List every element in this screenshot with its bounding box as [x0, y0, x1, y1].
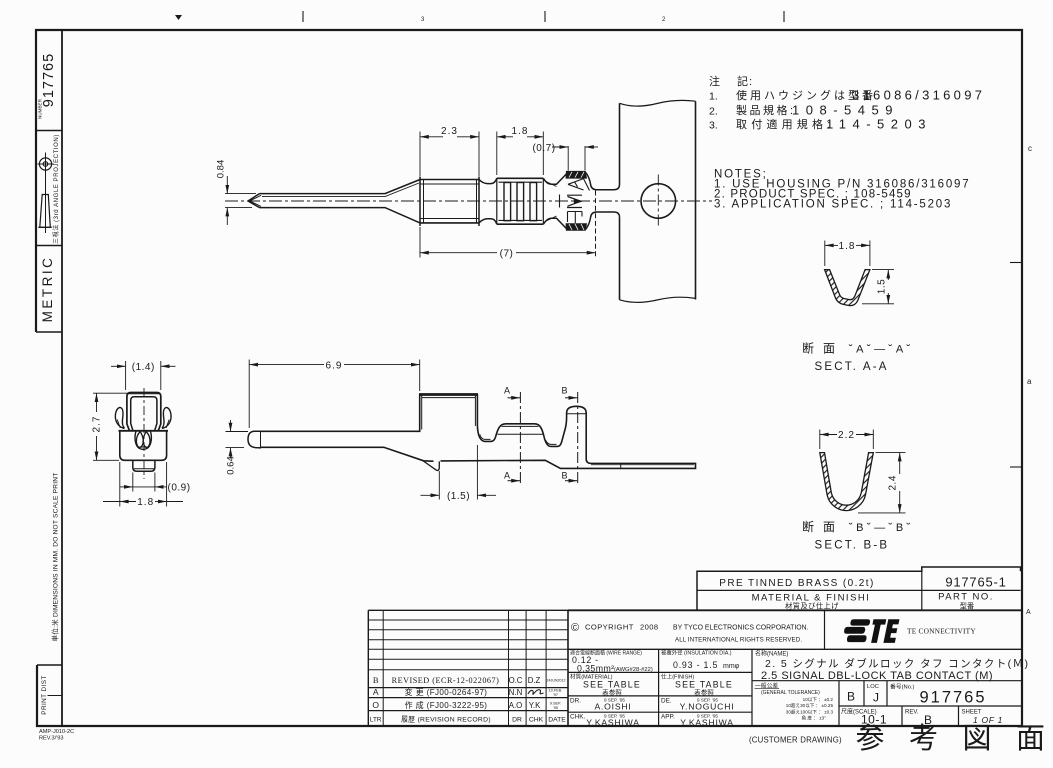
drafter cells	[570, 698, 734, 728]
svg-text:A: A	[1026, 609, 1031, 616]
svg-text:917765: 917765	[919, 689, 986, 707]
svg-text:REVISED (ECR-12-022067): REVISED (ECR-12-022067)	[392, 676, 500, 685]
front view centerline	[143, 388, 145, 479]
svg-text:Y.K: Y.K	[529, 701, 541, 710]
svg-text:作 成 (FJ00-3222-95): 作 成 (FJ00-3222-95)	[405, 700, 488, 710]
left strip: PRINT DIST box	[37, 665, 62, 726]
svg-text:0.93 - 1.5: 0.93 - 1.5	[673, 660, 718, 670]
svg-text:a: a	[1027, 377, 1032, 386]
svg-text:BY TYCO ELECTRONICS CORPORATIO: BY TYCO ELECTRONICS CORPORATION.	[673, 625, 809, 632]
svg-text:Y.KASHIWA: Y.KASHIWA	[586, 718, 640, 728]
svg-text:9.SEP.: 9.SEP.	[550, 702, 561, 706]
svg-text:取付適用規格:: 取付適用規格:	[736, 117, 834, 131]
svg-text:108-5459: 108-5459	[792, 103, 899, 118]
svg-text:COPYRIGHT: COPYRIGHT	[585, 623, 634, 632]
svg-text:Y.KASHIWA: Y.KASHIWA	[680, 718, 734, 728]
svg-text:三視法 (3rd ANGLE PROJECTION): 三視法 (3rd ANGLE PROJECTION)	[52, 134, 60, 244]
left strip: third angle projection symbol box	[36, 134, 62, 245]
svg-text:TE CONNECTIVITY: TE CONNECTIVITY	[907, 627, 976, 636]
svg-text:DE.: DE.	[661, 698, 672, 705]
svg-text:(GENERAL TOLERANCE): (GENERAL TOLERANCE)	[761, 690, 820, 696]
breakoff dashed line	[595, 191, 597, 258]
svg-text:材質及び仕上げ: 材質及び仕上げ	[785, 602, 839, 611]
A-A hatched V wall	[825, 270, 870, 306]
B-B dim 2.2	[820, 430, 874, 450]
English notes block	[714, 169, 970, 211]
revision header row	[370, 715, 566, 723]
Japanese notes block	[709, 74, 985, 132]
centerline	[225, 200, 712, 202]
svg-text:A.O: A.O	[509, 701, 522, 710]
svg-text:A.OISHI: A.OISHI	[594, 702, 631, 712]
svg-text:10超え30以下 ： ±0.25: 10超え30以下 ： ±0.25	[786, 702, 834, 709]
svg-text:0.84: 0.84	[216, 160, 227, 179]
svg-text:SECT. B-B: SECT. B-B	[815, 540, 890, 552]
slotted barrel section (1.8)	[497, 178, 544, 224]
svg-text:3. APPLICATION SPEC. ; 114-520: 3. APPLICATION SPEC. ; 114-5203	[714, 199, 952, 211]
svg-text:PRINT DIST: PRINT DIST	[41, 675, 48, 714]
svg-text:DR: DR	[512, 716, 522, 723]
svg-text:断面: 断面	[802, 341, 844, 356]
svg-text:番号(No.): 番号(No.)	[890, 684, 915, 691]
svg-text:NUMBER: NUMBER	[38, 98, 43, 119]
front view bottom tab	[133, 461, 155, 472]
svg-text:0.64: 0.64	[226, 456, 237, 475]
svg-text:(CUSTOMER DRAWING): (CUSTOMER DRAWING)	[749, 736, 842, 745]
svg-text:B: B	[561, 386, 567, 396]
revision row O	[372, 700, 561, 710]
neck 2	[543, 174, 567, 230]
svg-text:LTR: LTR	[370, 716, 382, 723]
svg-text:J: J	[873, 691, 879, 705]
svg-text:1.8: 1.8	[512, 126, 529, 137]
svg-text:被覆外径 (INSULATION DIA.): 被覆外径 (INSULATION DIA.)	[661, 649, 732, 657]
svg-text:c: c	[1028, 144, 1032, 153]
svg-text:LOC: LOC	[867, 684, 879, 690]
svg-text:Y.NOGUCHI: Y.NOGUCHI	[680, 702, 735, 712]
dim (1.5) barb	[421, 445, 497, 500]
svg-text:A: A	[373, 687, 379, 697]
svg-text:履歴 (REVISION RECORD): 履歴 (REVISION RECORD)	[401, 715, 491, 723]
svg-text:1.8: 1.8	[839, 241, 856, 252]
svg-text:(1.4): (1.4)	[132, 362, 155, 373]
svg-text:114-5203: 114-5203	[826, 117, 932, 132]
svg-text:DATE: DATE	[548, 716, 566, 723]
top margin ticks	[303, 11, 784, 22]
svg-text:2.3: 2.3	[441, 126, 458, 137]
svg-text:A: A	[504, 470, 510, 480]
transition box section (2.3)	[420, 177, 479, 227]
svg-text:角 度 ： ±3°: 角 度 ： ±3°	[801, 715, 826, 722]
svg-text:24JUN2012: 24JUN2012	[547, 679, 566, 683]
svg-text:B: B	[561, 470, 567, 480]
tall box top edge (thick)	[419, 395, 478, 430]
A-A dim 1.5	[862, 270, 894, 304]
neck 1	[479, 178, 497, 224]
svg-text:B: B	[373, 675, 379, 685]
svg-text:917765-1: 917765-1	[945, 575, 1006, 590]
svg-text:(0.7): (0.7)	[532, 143, 555, 154]
svg-text:O.C: O.C	[509, 676, 523, 685]
svg-text:1.8: 1.8	[137, 497, 154, 508]
svg-text:2. 5 シグナル ダブルロック タフ コンタクト(: 2. 5 シグナル ダブルロック タフ コンタクト(Ｍ)	[765, 657, 1029, 670]
svg-text:(AWG#28-#22): (AWG#28-#22)	[614, 667, 653, 673]
svg-text:CHK: CHK	[529, 716, 544, 723]
svg-text:ALL INTERNATIONAL RIGHTS RESER: ALL INTERNATIONAL RIGHTS RESERVED.	[675, 637, 802, 644]
dim 2.3	[420, 132, 479, 177]
svg-text:注: 注	[709, 74, 723, 88]
TITLE BLOCK grid lines	[568, 610, 1022, 726]
front view inner clip (wire grip)	[135, 431, 151, 449]
svg-text:˘B˘—˘B˘: ˘B˘—˘B˘	[848, 522, 914, 534]
dim 2.7	[93, 393, 127, 460]
front view top box (tab)	[127, 393, 161, 431]
top margin tick triangle	[175, 15, 182, 20]
svg-text:0.35mm²: 0.35mm²	[577, 663, 615, 673]
svg-text:2.7: 2.7	[92, 416, 103, 433]
left strip: NUMBER box	[36, 53, 62, 131]
front view left ear	[115, 407, 124, 428]
lance M-shape detail	[567, 195, 582, 207]
svg-text:2.2: 2.2	[838, 430, 855, 441]
svg-text:D.Z: D.Z	[528, 676, 541, 685]
dim 1.8 (front)	[103, 462, 183, 507]
REVISION TABLE grid	[368, 610, 568, 726]
svg-text:917765: 917765	[41, 53, 57, 107]
svg-text:REV.: REV.	[905, 710, 919, 716]
svg-text:断面: 断面	[802, 519, 844, 534]
svg-text:1.: 1.	[709, 91, 718, 103]
svg-text:1.5: 1.5	[876, 279, 887, 294]
svg-text:AMP-J010-2C: AMP-J010-2C	[39, 729, 74, 735]
svg-text:N.N: N.N	[509, 688, 522, 697]
retention barb	[423, 461, 440, 471]
revision row A	[373, 687, 562, 697]
lance lower box detail	[568, 212, 583, 224]
front view body	[119, 431, 169, 461]
svg-text:3.: 3.	[709, 120, 718, 132]
dim (7) overall	[420, 227, 596, 258]
svg-text:APP.: APP.	[661, 714, 675, 721]
B-B dim 2.4	[858, 453, 906, 513]
svg-text:'97: '97	[553, 693, 558, 697]
dim 0.84 (top view pin thickness)	[225, 176, 256, 225]
TE logo bars	[844, 619, 870, 642]
svg-text:(7): (7)	[500, 249, 514, 260]
dim (0.9)	[120, 473, 167, 492]
svg-text:SEE TABLE: SEE TABLE	[675, 680, 733, 690]
A-A dim 1.8	[825, 241, 870, 267]
carrier strip	[620, 100, 696, 302]
right margin ticks	[1010, 263, 1022, 468]
svg-text:記:: 記:	[737, 74, 753, 88]
svg-text:316086/316097: 316086/316097	[852, 88, 985, 103]
carrier pilot hole	[641, 175, 676, 228]
svg-text:mmφ: mmφ	[723, 663, 740, 670]
svg-text:6.9: 6.9	[326, 360, 343, 371]
lance right edge to tab	[585, 172, 619, 230]
profile inner detail lines	[480, 414, 694, 469]
svg-text:2.4: 2.4	[887, 475, 898, 490]
svg-text:PRE TINNED BRASS (0.2t): PRE TINNED BRASS (0.2t)	[719, 578, 874, 589]
svg-text:CHK.: CHK.	[570, 714, 585, 721]
svg-text:'95: '95	[553, 706, 558, 710]
part-number header box	[697, 567, 1021, 610]
svg-text:SEE TABLE: SEE TABLE	[583, 680, 641, 690]
svg-text:単位:米 DIMENSIONS IN MM. DO NOT: 単位:米 DIMENSIONS IN MM. DO NOT SCALE PRIN…	[51, 473, 60, 642]
dim 6.9	[249, 360, 420, 429]
three crimp slots	[504, 183, 537, 221]
svg-text:10.FEB.: 10.FEB.	[549, 689, 563, 693]
svg-text:REV.3/'93: REV.3/'93	[39, 736, 64, 742]
B-B hatched U wall	[820, 453, 874, 511]
svg-text:型番: 型番	[960, 602, 974, 611]
section cut line B-B	[561, 386, 577, 485]
svg-text:2008: 2008	[640, 623, 659, 632]
profile outline top	[260, 394, 696, 468]
svg-text:(0.9): (0.9)	[168, 483, 191, 494]
svg-text:2.5 SIGNAL DBL-LOCK TAB CONTAC: 2.5 SIGNAL DBL-LOCK TAB CONTACT (M)	[761, 670, 993, 682]
front view right ear	[162, 407, 171, 428]
svg-text:30超え100以下 ： ±0.3: 30超え100以下 ： ±0.3	[786, 708, 834, 715]
svg-text:参考図面: 参考図面	[856, 722, 1053, 755]
svg-text:表参照: 表参照	[602, 688, 622, 697]
svg-text:表参照: 表参照	[694, 688, 714, 697]
center tick mark on lance	[559, 195, 561, 208]
locking lance hatched band bottom	[566, 224, 587, 231]
pin tip chevron	[248, 194, 261, 208]
svg-text:METRIC: METRIC	[40, 256, 55, 323]
svg-text:(1.5): (1.5)	[447, 491, 470, 502]
svg-text:˘A˘—˘A˘: ˘A˘—˘A˘	[848, 344, 914, 356]
svg-text:変 更 (FJ00-0264-97): 変 更 (FJ00-0264-97)	[405, 687, 488, 697]
lance A-shape detail	[568, 179, 590, 191]
dim 1.8 (slots)	[497, 132, 544, 176]
svg-text:2.: 2.	[709, 106, 718, 118]
revision row B	[373, 675, 566, 685]
svg-text:A: A	[504, 386, 510, 396]
svg-text:©: ©	[571, 622, 579, 634]
svg-text:名称(NAME): 名称(NAME)	[755, 650, 788, 658]
dim (0.7) lance width	[552, 146, 598, 171]
TE logo letters	[871, 619, 899, 643]
dim 0.64 (middle view)	[226, 420, 249, 459]
pin shaft outline	[260, 180, 421, 223]
section cut line A-A	[504, 386, 520, 485]
locking lance hatched band top	[566, 171, 587, 178]
profile bottom edge	[261, 447, 434, 461]
svg-text:B: B	[847, 690, 855, 704]
svg-text:製品規格:: 製品規格:	[736, 103, 796, 117]
pin left end cap	[248, 431, 261, 448]
left strip: METRIC box	[36, 256, 62, 332]
dim (1.4)	[111, 361, 176, 390]
svg-text:DR.: DR.	[570, 698, 581, 705]
svg-text:SECT. A-A: SECT. A-A	[815, 361, 889, 373]
svg-text:O: O	[372, 700, 379, 710]
